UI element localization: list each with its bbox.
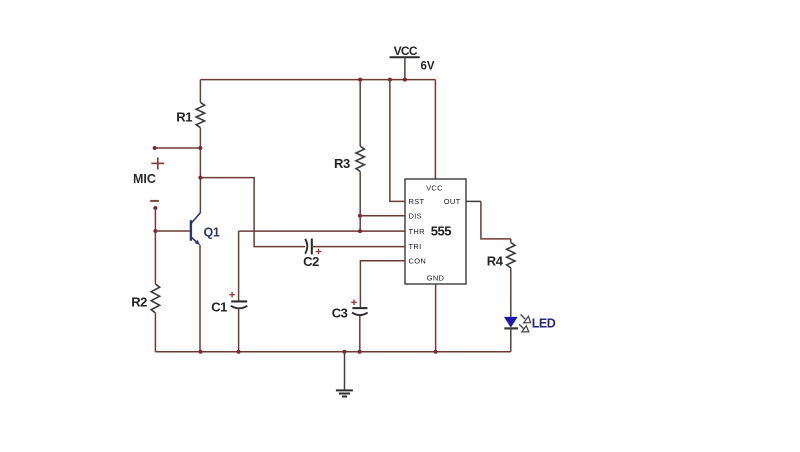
svg-text:CON: CON	[409, 257, 427, 266]
pin label CON	[409, 257, 427, 266]
label R1	[176, 110, 192, 125]
C2 plus sign	[316, 249, 322, 255]
wire top VCC rail	[200, 79, 435, 81]
LED light arrow 2	[519, 324, 529, 332]
node collector tap junction	[198, 176, 202, 180]
pin label OUT	[444, 197, 461, 206]
svg-text:MIC: MIC	[133, 172, 156, 186]
C1 plus sign	[229, 292, 235, 298]
wire C1 bottom lead	[238, 309, 240, 352]
svg-text:GND: GND	[427, 273, 445, 282]
svg-text:LED: LED	[532, 316, 556, 330]
pin label RST	[409, 197, 425, 206]
pin label THR	[409, 227, 426, 236]
wire C2 to TRI pin	[313, 246, 405, 248]
pin label GND	[427, 273, 445, 282]
node MIC plus terminal	[153, 146, 157, 150]
wire base line	[155, 230, 189, 232]
svg-text:THR: THR	[409, 227, 426, 236]
capacitor C2	[305, 239, 312, 255]
LED light arrow 1	[521, 314, 531, 322]
wire C1 top lead	[238, 231, 240, 301]
wire R1 bottom lead	[199, 128, 201, 148]
node rail/R3 junction	[358, 78, 362, 82]
wire IC GND pin lead	[435, 284, 437, 352]
node MIC minus terminal	[153, 206, 157, 210]
svg-text:R3: R3	[334, 156, 350, 171]
label MIC	[133, 172, 156, 186]
node emitter/rail junction	[199, 350, 203, 354]
LED D1	[504, 303, 518, 344]
resistor R2	[151, 284, 159, 313]
wire OUT pin stub	[466, 200, 481, 202]
wire bottom ground rail	[155, 351, 510, 353]
wire DIS line	[360, 215, 405, 217]
label 6V	[421, 61, 435, 73]
label Q1	[204, 225, 220, 239]
wire R3 bottom lead	[359, 172, 361, 232]
capacitor C1	[231, 301, 248, 308]
svg-text:R1: R1	[176, 110, 192, 125]
node GND pin/rail junction	[434, 350, 438, 354]
svg-text:C3: C3	[332, 305, 348, 320]
wire R1 top lead	[199, 80, 201, 103]
label C2	[303, 254, 319, 269]
node DIS junction	[358, 214, 362, 218]
node rail/VCC junction	[403, 78, 407, 82]
label LED	[532, 316, 556, 330]
node ground stem junction	[342, 350, 346, 354]
op-amp U1 555 IC box	[405, 179, 466, 284]
node base junction	[153, 229, 157, 233]
capacitor C3	[352, 308, 368, 315]
svg-text:C1: C1	[211, 300, 227, 315]
wire LED bottom lead	[510, 344, 512, 352]
node R1/MIC junction	[198, 146, 202, 150]
label 555	[431, 224, 451, 239]
wire R2 bottom lead	[154, 313, 156, 352]
resistor R3	[356, 146, 364, 171]
svg-text:R4: R4	[487, 253, 504, 268]
wire RST line	[390, 80, 405, 202]
wire C3 bottom lead	[359, 316, 361, 352]
wire collector vertical	[199, 178, 201, 213]
svg-text:DIS: DIS	[409, 211, 422, 220]
svg-text:RST: RST	[409, 197, 425, 206]
label R4	[487, 253, 504, 268]
svg-text:6V: 6V	[421, 61, 435, 73]
wire R3 top lead	[359, 80, 361, 147]
label C3	[332, 305, 348, 320]
node C3/rail junction	[358, 350, 362, 354]
node rail/RST junction	[388, 78, 392, 82]
MIC minus sign	[150, 200, 159, 202]
wire CON line	[360, 261, 405, 308]
svg-text:VCC: VCC	[394, 44, 418, 58]
wire OUT to R4	[481, 201, 511, 239]
svg-text:555: 555	[431, 224, 451, 239]
wire MIC plus line	[155, 147, 201, 149]
pin label VCC	[426, 184, 443, 193]
wire R4 top lead	[510, 239, 512, 243]
node THR junction	[358, 229, 362, 233]
ground	[336, 352, 353, 397]
svg-text:Q1: Q1	[204, 225, 220, 239]
node C1/rail junction	[237, 350, 241, 354]
pin label DIS	[409, 211, 422, 220]
label R2	[131, 295, 147, 310]
wire R1 to collector tap	[199, 148, 201, 178]
svg-text:R2: R2	[131, 295, 147, 310]
label R3	[334, 156, 350, 171]
wire collector tap to C2	[200, 178, 305, 247]
svg-text:VCC: VCC	[426, 184, 443, 193]
C3 plus sign	[351, 300, 357, 306]
svg-text:TRI: TRI	[409, 242, 422, 251]
wire MIC minus down to R2	[154, 208, 156, 284]
pin label TRI	[409, 242, 422, 251]
svg-text:OUT: OUT	[444, 197, 461, 206]
transistor Q1	[191, 213, 200, 245]
svg-text:C2: C2	[303, 254, 319, 269]
resistor R4	[507, 243, 515, 268]
power VCC symbol	[390, 57, 420, 79]
MIC plus sign	[151, 157, 164, 169]
wire emitter down to rail	[199, 245, 201, 352]
wire THR line	[239, 230, 405, 232]
label C1	[211, 300, 227, 315]
label VCC	[394, 44, 418, 58]
wire R4 to LED	[510, 268, 512, 303]
wire IC VCC pin lead	[434, 80, 436, 179]
resistor R1	[196, 102, 204, 127]
